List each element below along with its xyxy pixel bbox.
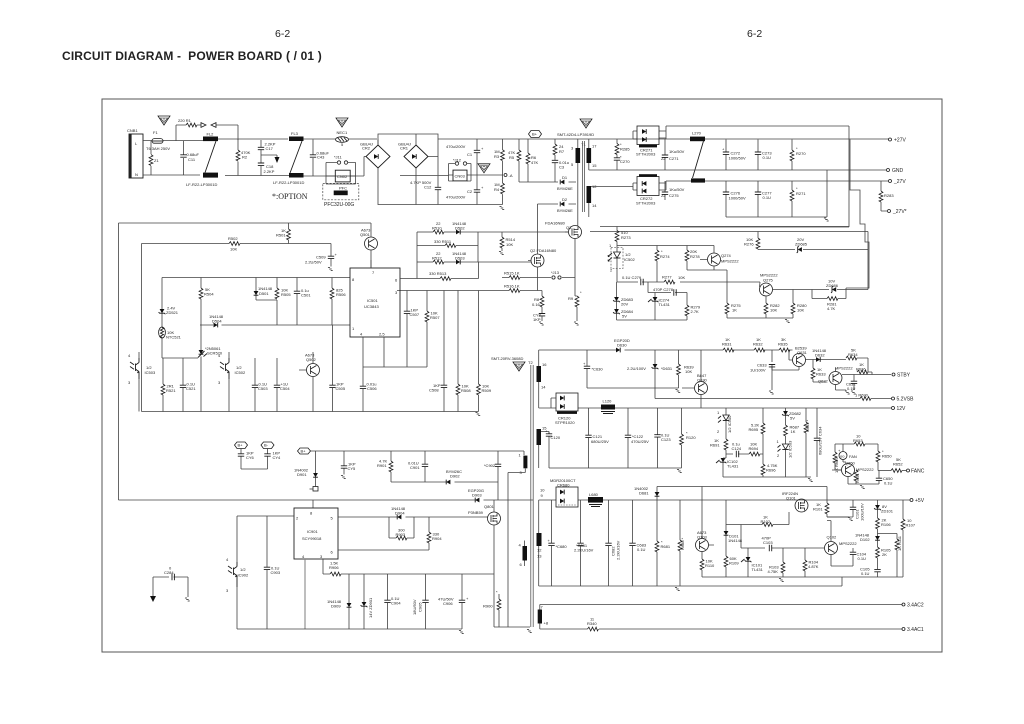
svg-text:R515 1K: R515 1K <box>504 271 520 276</box>
terminal B+ hex with cap CY6 <box>235 442 255 469</box>
terminal 12V <box>892 406 907 412</box>
svg-text:D632: D632 <box>815 353 825 358</box>
zener ZD686 10V <box>826 279 868 293</box>
svg-text:NEC1: NEC1 <box>337 130 348 135</box>
resistor R9 with ground <box>568 290 582 325</box>
resistor R639 10K <box>677 350 695 388</box>
svg-text:C1: C1 <box>467 152 473 157</box>
zener ZD682 5V <box>782 408 802 425</box>
resistor R5 47K <box>508 139 521 182</box>
resistor R101 1K <box>813 500 854 521</box>
resistor R120 <box>680 408 697 468</box>
resistor R107 10 <box>901 500 916 577</box>
svg-text:IC503: IC503 <box>145 370 156 375</box>
shunt reg IC102 TL431 <box>716 458 739 477</box>
transistor Q501 A673 <box>360 223 378 268</box>
svg-text:C507: C507 <box>410 312 420 317</box>
resistor R270 <box>790 140 806 171</box>
optocoupler IC902 1/2 <box>226 557 249 629</box>
svg-text:20V: 20V <box>621 302 628 307</box>
svg-text:10: 10 <box>540 488 545 493</box>
svg-text:R512: R512 <box>432 256 442 261</box>
svg-text:Q501: Q501 <box>360 232 371 237</box>
mosfet Q1 FDA16N80 <box>545 221 582 297</box>
svg-text:MPS2222: MPS2222 <box>856 467 874 472</box>
svg-text:1K R111: 1K R111 <box>897 535 902 551</box>
svg-text:10K: 10K <box>797 308 804 313</box>
svg-text:C503: C503 <box>258 386 268 391</box>
resistor R102 1K <box>726 515 789 527</box>
wire gate row to Q801 <box>429 516 488 518</box>
svg-text:13: 13 <box>537 554 542 559</box>
capacitor C122 470U/25V <box>625 408 649 468</box>
resistor R512 22 <box>417 251 456 264</box>
resistor R6 47K <box>526 139 538 182</box>
svg-text:R273: R273 <box>621 235 631 240</box>
svg-text:4.75K: 4.75K <box>768 569 779 574</box>
svg-text:D909: D909 <box>331 604 341 609</box>
PFC module dashed box <box>323 183 359 208</box>
wire feedback loop <box>590 126 868 232</box>
svg-text:470P C278: 470P C278 <box>653 287 674 292</box>
svg-text:oo: oo <box>840 454 845 459</box>
svg-text:B-: B- <box>264 443 269 448</box>
transformer T2 primary winding 1-3 <box>508 453 527 628</box>
svg-text:*C902: *C902 <box>484 463 496 468</box>
resistor R631 1K <box>722 337 734 352</box>
capacitor C501 0.1u <box>294 278 312 326</box>
terminal +27V <box>889 138 907 144</box>
transistor Q502 A673 <box>299 352 320 412</box>
svg-text:1U/100V: 1U/100V <box>750 368 766 373</box>
svg-text:T6.3AH 250V: T6.3AH 250V <box>146 146 170 151</box>
svg-text:1K: 1K <box>732 308 737 313</box>
transistor Q102 MPS2222 <box>825 521 858 566</box>
svg-text:FAN: FAN <box>849 454 857 459</box>
svg-text:2.2KU/16V: 2.2KU/16V <box>574 548 594 553</box>
capacitor C12 4.7KP 500V <box>410 176 441 205</box>
svg-text:UC3843: UC3843 <box>364 304 379 309</box>
resistor R695 5.2K <box>749 408 765 464</box>
svg-text:C505: C505 <box>336 386 346 391</box>
svg-text:*J13: *J13 <box>551 270 560 275</box>
capacitor C121 680U/25V <box>585 408 609 468</box>
inductor L120 <box>601 399 615 414</box>
svg-text:47K: 47K <box>531 160 538 165</box>
resistor R521 2R1 <box>161 358 176 412</box>
resistor R505 10K <box>275 278 291 300</box>
svg-text:PFC: PFC <box>339 186 347 191</box>
svg-text:P3NB59: P3NB59 <box>468 510 484 515</box>
svg-text:D901: D901 <box>297 472 307 477</box>
svg-text:R501: R501 <box>276 233 286 238</box>
jumper J11 <box>334 155 348 165</box>
zener ZD901 14V <box>361 574 373 629</box>
IC IC901 SCY99018 <box>294 500 338 559</box>
svg-text:FL2: FL2 <box>207 132 215 137</box>
svg-text:D904: D904 <box>395 511 405 516</box>
svg-text:2.2KU/16V: 2.2KU/16V <box>616 540 621 560</box>
wire standby top bus <box>539 350 793 360</box>
capacitor C680 <box>548 500 568 586</box>
wire bottom bus fb <box>617 319 688 321</box>
svg-text:R691: R691 <box>710 443 720 448</box>
svg-text:BYM26E: BYM26E <box>557 186 573 191</box>
svg-text:R650: R650 <box>882 454 892 459</box>
mosfet Q101 IRF224N <box>782 491 808 525</box>
capacitor C271 1Ku/50V <box>661 139 685 170</box>
svg-text:LF-R22-LP3001D: LF-R22-LP3001D <box>186 182 217 187</box>
zener ZD683 20V <box>613 282 634 309</box>
wire tl431 gnd row <box>723 476 811 478</box>
svg-text:*C680: *C680 <box>556 544 568 549</box>
wire L rail <box>143 139 890 141</box>
svg-text:R101: R101 <box>813 507 823 512</box>
svg-text:LF-R22-LP3001D: LF-R22-LP3001D <box>273 180 304 185</box>
svg-text:R906: R906 <box>329 565 339 570</box>
capacitor C272 1000/50V <box>722 140 746 171</box>
svg-text:C270: C270 <box>620 159 630 164</box>
thyristor SCR520 2N5061 <box>198 325 223 412</box>
bridge rectifier CR2 GBU4J <box>360 140 390 205</box>
transformer T2 secondary winding 15-13 <box>537 426 550 469</box>
svg-text:1/2: 1/2 <box>240 567 246 572</box>
wire bottom return bus <box>539 553 842 586</box>
svg-text:12V: 12V <box>897 406 907 412</box>
svg-text:0.1U: 0.1U <box>763 155 772 160</box>
capacitor C3 0.01u <box>552 160 569 182</box>
svg-text:R5: R5 <box>509 155 515 160</box>
resistor R340 <box>540 617 902 631</box>
svg-text:10K: 10K <box>230 247 237 252</box>
wire 3.4AC2 <box>540 605 902 610</box>
svg-text:1/2 IC500: 1/2 IC500 <box>727 415 732 433</box>
svg-text:R696: R696 <box>766 468 776 473</box>
svg-text:CN02: CN02 <box>337 174 348 179</box>
svg-text:D630: D630 <box>617 343 627 348</box>
svg-text:1/2 IC503: 1/2 IC503 <box>788 440 793 458</box>
wire N rail <box>143 175 503 176</box>
svg-text:+27V: +27V <box>894 138 906 144</box>
svg-text:R681: R681 <box>661 544 671 549</box>
resistor R690 <box>655 393 891 401</box>
capacitor C284 with grounds <box>150 566 191 603</box>
svg-text:D502: D502 <box>455 226 465 231</box>
svg-text:NTC521: NTC521 <box>166 335 182 340</box>
svg-text:14: 14 <box>541 385 546 390</box>
wire gate row <box>162 357 198 359</box>
capacitor C506 0.01u <box>360 382 378 412</box>
svg-text:12: 12 <box>537 548 542 553</box>
transistor Q275 MPS2222 <box>760 273 830 304</box>
svg-text:C17: C17 <box>266 146 274 151</box>
capacitor C17 2.2KP <box>258 140 276 163</box>
svg-text:Q274: Q274 <box>721 253 732 258</box>
svg-text:R270: R270 <box>796 151 806 156</box>
svg-text:MPS2222: MPS2222 <box>839 541 857 546</box>
resistor R506 825 <box>330 278 346 326</box>
svg-text:R633: R633 <box>816 372 826 377</box>
svg-text:B+: B+ <box>301 449 307 454</box>
wire 12V rail <box>539 407 891 409</box>
transformer T2 primary winding 4-6 <box>519 541 528 568</box>
jumper J12 / connector CN03 <box>449 158 472 182</box>
svg-text:N: N <box>135 172 138 177</box>
ground at bus <box>823 218 830 221</box>
svg-text:_27V: _27V <box>893 179 906 185</box>
svg-text:C103: C103 <box>763 540 773 545</box>
svg-text:Q631: Q631 <box>797 350 808 355</box>
rectifier CR271 STTH2003 <box>633 126 666 157</box>
transformer T2 secondary winding 7-8 <box>538 605 549 626</box>
svg-text:2K: 2K <box>882 552 887 557</box>
svg-text:CR1: CR1 <box>400 146 409 151</box>
bridge rectifier CR1 GBU4J <box>398 134 438 205</box>
terminal -27V* <box>888 209 907 215</box>
capacitor C505 1KP <box>329 325 346 412</box>
svg-text:SCR520: SCR520 <box>207 351 223 356</box>
svg-text:CY4: CY4 <box>273 455 282 460</box>
resistor R274 <box>655 249 670 282</box>
schematic border frame <box>102 99 942 652</box>
resistor R651 <box>854 470 860 484</box>
svg-text:R9: R9 <box>568 296 574 301</box>
resistor R2 470K <box>236 139 251 176</box>
resistor R279 2.7K <box>685 293 701 321</box>
svg-text:1K R689: 1K R689 <box>834 457 839 473</box>
optocoupler IC502 1/2 (LED side) <box>608 242 635 283</box>
svg-text:Q1: Q1 <box>566 225 572 230</box>
diode D681 1N4002 <box>634 486 659 500</box>
resistor R276 10K <box>744 232 760 250</box>
svg-text:C904: C904 <box>391 601 401 606</box>
svg-text:Q502: Q502 <box>306 357 317 362</box>
svg-text:18U/50V: 18U/50V <box>412 599 417 615</box>
rectifier CR120 STPR1020 <box>551 393 578 425</box>
svg-text:L270: L270 <box>692 131 702 136</box>
svg-text:1N4148: 1N4148 <box>728 538 743 543</box>
capacitor C18 2.2KP <box>258 163 275 176</box>
resistor R273 510 <box>615 227 631 242</box>
svg-text:R652: R652 <box>893 462 903 467</box>
transistor Q650 MPS2222 <box>835 461 879 485</box>
diode D501 1N4148 <box>254 278 277 326</box>
svg-text:C271: C271 <box>669 156 679 161</box>
svg-text:C120: C120 <box>551 435 561 440</box>
resistor R7 24 <box>553 139 565 160</box>
svg-text:+5V: +5V <box>915 498 925 504</box>
svg-text:C501: C501 <box>301 293 311 298</box>
svg-text:R283: R283 <box>884 193 894 198</box>
resistor R1 220 with arrows <box>176 118 238 141</box>
capacitor C521 0.1U <box>180 358 197 412</box>
svg-text:CIRCUIT DIAGRAM - POWER BOARD: CIRCUIT DIAGRAM - POWER BOARD ( / 01 ) <box>62 49 322 63</box>
resistor R3 1M <box>494 139 504 175</box>
transformer T2 secondary winding 16-14 <box>537 350 548 408</box>
svg-text:5V: 5V <box>790 416 795 421</box>
svg-text:D2: D2 <box>562 197 568 202</box>
svg-text:R340: R340 <box>587 621 597 626</box>
diode D632 1N4148 <box>812 348 846 362</box>
svg-text:C901: C901 <box>410 465 420 470</box>
resistor R511 330 <box>417 232 478 262</box>
svg-text:2,5: 2,5 <box>379 332 385 337</box>
capacitor C507 1KP <box>404 291 420 368</box>
zener D631 2.2U/100V <box>627 350 673 399</box>
svg-text:5.2VSB: 5.2VSB <box>897 397 915 403</box>
svg-text:R107: R107 <box>906 523 916 528</box>
svg-text:10K: 10K <box>770 308 777 313</box>
svg-text:MPS2222: MPS2222 <box>721 259 739 264</box>
line filter FL3 <box>273 131 304 185</box>
wire pin2 row <box>237 516 294 567</box>
svg-text:ZD685: ZD685 <box>795 242 808 247</box>
capacitor C902 <box>484 451 501 500</box>
capacitor C650 0.1U <box>859 471 893 489</box>
wire d681 row <box>657 487 827 501</box>
resistor R691 1K <box>710 438 728 458</box>
terminal A <box>504 173 513 178</box>
svg-text:470u/200V: 470u/200V <box>446 144 466 149</box>
wire ic901 bottom bus <box>237 628 462 630</box>
wire STBY row <box>842 372 891 375</box>
resistor R508 10K <box>456 291 471 412</box>
resistor R103 4.75K <box>768 548 785 582</box>
svg-text:IC502: IC502 <box>624 257 635 262</box>
svg-text:TL431: TL431 <box>659 302 671 307</box>
capacitor C277 0.1U <box>755 181 773 217</box>
resistor R900 <box>483 590 501 628</box>
svg-text:R276: R276 <box>744 242 754 247</box>
svg-text:R271: R271 <box>796 191 806 196</box>
capacitor C103 470P <box>741 525 824 552</box>
capacitor C503 0.1U <box>252 358 269 412</box>
svg-text:+8: +8 <box>544 621 549 626</box>
svg-text:FDA16N80: FDA16N80 <box>545 221 566 226</box>
svg-text:C3: C3 <box>559 165 565 170</box>
svg-text:_27V*: _27V* <box>892 209 907 215</box>
svg-text:D902: D902 <box>450 474 460 479</box>
svg-text:C123: C123 <box>661 437 671 442</box>
capacitor C275 1Ku/50V <box>661 181 685 200</box>
svg-text:0.1U: 0.1U <box>847 386 856 391</box>
svg-text:STPR1020: STPR1020 <box>555 420 575 425</box>
capacitor C508 1KP <box>429 291 447 412</box>
resistor R8 0.16 <box>532 296 544 313</box>
IC U501 UC3843 <box>350 268 400 337</box>
resistor R632 1K <box>753 337 765 352</box>
connector CNB1 <box>127 128 143 178</box>
resistor R509 10K <box>474 291 491 416</box>
bridge top loop wire <box>378 134 438 175</box>
svg-text:CN03: CN03 <box>455 174 466 179</box>
svg-text:R3: R3 <box>494 154 500 159</box>
svg-text:10K: 10K <box>506 242 513 247</box>
svg-text:STTH2003: STTH2003 <box>636 201 656 206</box>
svg-text:FL3: FL3 <box>291 131 299 136</box>
resistor R281 4.7K <box>812 288 846 311</box>
transformer T2 core <box>526 360 534 633</box>
shunt reg IC101 TL431 <box>741 548 764 577</box>
terminal -27V <box>889 179 907 185</box>
svg-text:D903: D903 <box>472 493 482 498</box>
resistor R283 <box>879 181 894 211</box>
resistor R280 10K <box>791 290 807 319</box>
svg-text:4.87K: 4.87K <box>808 564 819 569</box>
svg-text:0.1U C279: 0.1U C279 <box>622 275 642 280</box>
inductor L270 <box>690 131 705 183</box>
svg-text:22: 22 <box>661 156 666 161</box>
svg-text:*J11: *J11 <box>334 155 342 160</box>
svg-text:C11: C11 <box>188 157 196 162</box>
resistor R653 10 <box>835 434 878 446</box>
svg-text:R688 *: R688 * <box>680 537 685 550</box>
svg-text:R2: R2 <box>242 155 248 160</box>
svg-text:R274: R274 <box>660 254 670 259</box>
capacitor C270 <box>614 155 631 171</box>
resistor R106 2K <box>876 518 897 537</box>
resistor R650 <box>876 444 892 471</box>
zener ZD101 8V <box>874 500 894 518</box>
resistor R275 1K <box>725 303 741 318</box>
svg-text:1KP: 1KP <box>533 317 541 322</box>
svg-text:R653: R653 <box>853 438 863 443</box>
transistor Q103 A673 <box>696 487 715 560</box>
svg-text:L120: L120 <box>603 399 613 404</box>
svg-text:14V ZD901: 14V ZD901 <box>368 597 373 618</box>
svg-text:SCY99018: SCY99018 <box>302 536 322 541</box>
svg-text:R901: R901 <box>377 463 387 468</box>
resistor R635 3K <box>778 337 790 352</box>
svg-text:C906: C906 <box>443 601 453 606</box>
capacitor C904 0.1U <box>384 574 401 629</box>
svg-text:R285: R285 <box>620 147 630 152</box>
svg-text:C275: C275 <box>669 193 679 198</box>
wire 12V gnd row <box>549 467 682 469</box>
svg-text:15: 15 <box>592 163 597 168</box>
capacitor C905 18U/50V <box>412 574 429 629</box>
svg-text:0.1U: 0.1U <box>637 547 646 552</box>
resistor R681 <box>655 500 671 586</box>
svg-text:IC901: IC901 <box>307 529 318 534</box>
capacitor C681 2.2KU/16V <box>574 500 594 586</box>
rectifier CR272 STTH2003 <box>633 174 666 205</box>
terminal 3.4AC1 <box>902 627 924 633</box>
resistor R4 1M <box>494 175 504 205</box>
capacitor C104 0.1U <box>850 548 867 561</box>
diode D903 EGP20G <box>468 488 484 502</box>
wire pin4 gray <box>304 559 306 629</box>
svg-text:R508: R508 <box>461 388 471 393</box>
svg-text:Q275: Q275 <box>763 278 774 283</box>
svg-text:C124: C124 <box>732 446 742 451</box>
resistor R277 10K <box>662 275 760 284</box>
svg-text:IC902: IC902 <box>238 573 249 578</box>
neon NEC1 <box>336 118 349 147</box>
svg-text:TL431: TL431 <box>727 464 739 469</box>
resistor R904 330 <box>427 517 442 550</box>
resistor R689 1K <box>832 444 842 473</box>
diode D904 1N4148 <box>391 506 406 519</box>
svg-text:*C630: *C630 <box>592 367 604 372</box>
svg-text:R278: R278 <box>690 254 700 259</box>
wire stair feedback <box>846 140 869 289</box>
transformer T2 secondary winding 10-9 <box>537 488 546 559</box>
resistor R636 1K <box>856 362 868 374</box>
svg-text:R631: R631 <box>722 342 732 347</box>
svg-text:R692 *: R692 * <box>805 419 810 432</box>
terminal B+ hex 2 <box>298 448 311 454</box>
